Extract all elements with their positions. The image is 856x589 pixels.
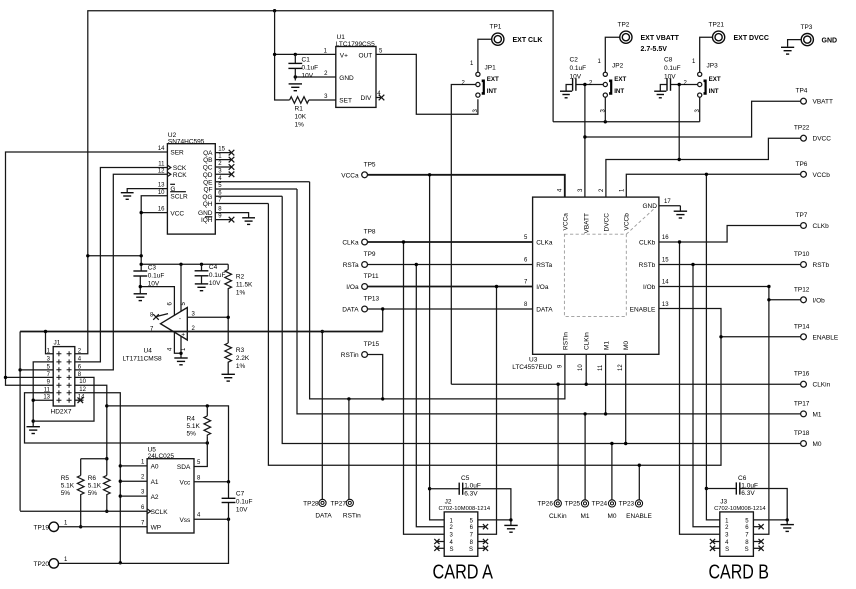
svg-text:SET: SET [339,98,352,105]
wire U2 QE stub [215,181,309,183]
svg-text:INT: INT [709,88,719,95]
svg-text:1%: 1% [236,289,246,296]
junction C1 top on V+ line [294,53,297,56]
wire JP1 pin2 to CLKin column [451,85,476,385]
svg-text:GND: GND [822,38,838,45]
svg-text:I/Ob: I/Ob [813,297,826,304]
wire U2 VCC rail and C3 [86,211,167,271]
svg-text:U1: U1 [337,34,346,41]
svg-text:J2: J2 [445,499,452,506]
svg-text:TP7: TP7 [796,212,808,219]
svg-text:C702-10M008-1214: C702-10M008-1214 [714,506,766,512]
svg-text:0.1uF: 0.1uF [302,65,319,72]
wire U2 QH stub [215,203,268,205]
svg-text:C702-10M008-1214: C702-10M008-1214 [439,506,491,512]
svg-text:DVCC: DVCC [603,213,610,232]
svg-text:10K: 10K [295,114,307,121]
svg-text:J3: J3 [720,499,727,506]
wire RSTb net: U3 pin15 to TP10, branch to J3 pin2 [659,263,801,527]
U3 top pin numbers [558,188,626,192]
svg-text:M0: M0 [607,513,616,520]
testpoint TP28 DATA [303,499,332,519]
U3 left pin labels [524,235,553,313]
junction VCC rail / U1 V+ branch [273,9,276,12]
svg-text:CLKin: CLKin [584,332,591,350]
svg-text:TP19: TP19 [34,524,50,531]
capacitor C6 1.0uF 6.3V [736,475,758,497]
wire CLKa net: TP8 to U3 pin5, branch to J2 pin3 [368,240,533,534]
wire C2 left plate to ground [566,85,573,91]
svg-text:11: 11 [44,387,51,393]
svg-text:LTC4557EUD: LTC4557EUD [512,364,552,371]
svg-text:16: 16 [158,207,165,213]
svg-text:SN74HC595: SN74HC595 [168,138,205,145]
wire CLKb net: U3 pin16 to TP7, branch to J3 pin3 [659,226,801,535]
ground below TP3 [781,47,794,54]
testpoint TP12 I/Ob [794,286,825,304]
svg-text:11: 11 [158,162,165,168]
J2 S-left no-connect X [434,546,444,551]
svg-text:TP17: TP17 [794,400,810,407]
svg-text:RSTb: RSTb [813,262,830,269]
SIM connector J3 C702-10M008-1214 [714,499,766,557]
svg-text:2.7-5.5V: 2.7-5.5V [641,46,668,53]
svg-text:+: + [181,332,185,339]
wire C5 net CARD A bypass [430,489,513,525]
svg-text:QA: QA [203,150,213,157]
svg-text:EXT VBATT: EXT VBATT [641,35,680,42]
svg-text:R3: R3 [236,347,245,354]
svg-text:I/Ob: I/Ob [643,284,656,291]
wire R5 R6 top rail [81,458,107,460]
U2 left pin numbers [158,146,165,213]
testpoint TP9 RSTa [343,251,376,269]
svg-text:10V: 10V [209,280,221,287]
svg-text:VCCb: VCCb [624,213,631,231]
ground at U2 Gbar pin [121,193,134,200]
J3 S-left no-connect X [710,546,720,551]
J1 right pin numbers [78,348,87,400]
svg-text:14: 14 [158,146,165,152]
svg-text:JP3: JP3 [707,63,719,70]
wire C8 left plate to ground [660,85,667,91]
svg-text:CLKa: CLKa [536,240,553,247]
svg-text:TP14: TP14 [794,323,810,330]
svg-text:GND: GND [198,210,213,217]
svg-text:10: 10 [578,364,584,371]
svg-text:13: 13 [158,183,165,189]
svg-text:EXT DVCC: EXT DVCC [734,35,769,42]
wire R4 column to U5 SDA [194,436,207,466]
svg-text:24LC025: 24LC025 [148,453,175,460]
ground below C2 [560,91,572,98]
svg-text:TP13: TP13 [364,296,380,303]
testpoint TP13 DATA [342,296,379,314]
testpoint TP23 ENABLE [619,500,653,520]
svg-text:R5: R5 [61,475,70,482]
wire TP2 to JP2 pin1 [605,37,620,72]
wire J1 pin1 to data line [44,330,53,354]
svg-text:16: 16 [662,235,669,241]
wire U1 OUT to JP1 pin3 loop [376,54,478,114]
wire J1 pin12 to U5 address pins and TP20 [75,393,122,565]
svg-text:RSTa: RSTa [343,262,359,269]
ground at U2 GND pin [242,218,255,225]
svg-text:RSTa: RSTa [536,262,552,269]
svg-text:CARD A: CARD A [433,562,494,584]
jumper JP1 EXT/INT [462,61,500,113]
svg-text:Vcc: Vcc [179,479,191,486]
svg-text:WP: WP [151,525,161,532]
svg-text:GND: GND [339,75,354,82]
wire DATA net: TP13 to U3 pin8, branch to U4 plus input [368,307,533,331]
svg-text:A0: A0 [151,464,159,471]
dual SIM power selector U3 LTC4557EUD [512,197,659,371]
wire JP2/JP3 INT select rail [553,120,700,123]
J1 pin cross marks [56,351,71,402]
svg-text:DATA: DATA [536,307,553,314]
svg-text:5.1K: 5.1K [88,482,102,489]
svg-text:10V: 10V [236,507,248,514]
svg-text:OUT: OUT [359,52,373,59]
wire U2 SCLR to VCC [141,196,167,213]
svg-text:RSTin: RSTin [563,332,570,350]
svg-text:QB: QB [203,157,212,164]
svg-text:C6: C6 [738,475,747,482]
jumper JP3 EXT/INT [684,59,721,113]
wire DVCC net: JP3 pin2, C8, U3 pin2, TP22 [606,83,801,197]
svg-text:EXT: EXT [614,76,626,83]
svg-text:ENABLE: ENABLE [813,334,839,341]
svg-text:2.2K: 2.2K [236,355,250,362]
svg-text:TP24: TP24 [592,500,608,507]
svg-text:DIV: DIV [361,95,373,102]
svg-text:6.3V: 6.3V [741,490,755,497]
jumper JP2 EXT/INT [589,59,626,113]
svg-text:10V: 10V [302,73,314,80]
wire VCCa net: TP5 to U3 pin4, branch to CARD A [368,173,565,520]
comparator U4 LT1711CMS8 [123,302,196,363]
svg-text:INT: INT [614,88,624,95]
svg-text:I/Oa: I/Oa [346,284,359,291]
svg-text:15: 15 [662,258,669,264]
junction V+ node [273,53,276,56]
svg-text:R4: R4 [187,415,196,422]
svg-text:C4: C4 [209,264,218,271]
wire J1 pin3 pin13 ground column [32,362,54,427]
wire U4 V+ stub from rail [180,264,182,311]
svg-text:0.1uF: 0.1uF [236,499,253,506]
U2 QC no-connect X [215,164,234,170]
wire U2 RCK to J1 pin6 [75,174,168,370]
wire I/Oa net: TP11 to U3 pin7, branch to J2 pin7 [368,285,533,534]
svg-text:U3: U3 [529,357,538,364]
ground below C6 [781,525,794,532]
wire C6 net CARD B bypass [706,489,789,525]
svg-text:15: 15 [218,147,225,153]
wire U2 QG stub [215,195,282,197]
svg-text:5.1K: 5.1K [61,482,75,489]
svg-text:R6: R6 [88,475,97,482]
svg-text:13: 13 [662,302,669,308]
svg-text:M1: M1 [580,513,589,520]
testpoint TP18 M0 [794,430,822,448]
wire J1 pin8 ground loop [33,377,94,421]
svg-text:QD: QD [203,172,213,179]
svg-text:DVCC: DVCC [813,136,832,143]
svg-text:HD2X7: HD2X7 [51,409,72,416]
J2 pin8 no-connect X [478,539,488,544]
wire TP28 DATA branch from U4 line [321,330,324,500]
svg-text:Vss: Vss [179,517,191,524]
svg-text:11.5K: 11.5K [236,281,253,288]
testpoint TP3 GND [801,24,838,46]
wire VCCb net: U3 pin1 to TP6, branch to CARD B [626,173,800,520]
svg-text:VBATT: VBATT [813,99,833,106]
resistor R5 5.1K 5% [61,475,84,497]
svg-text:5.1K: 5.1K [187,423,201,430]
testpoint TP21 EXT DVCC [709,22,769,44]
testpoint TP2 EXT VBATT [618,22,680,53]
testpoint TP7 CLKb [796,212,830,230]
wire TP15 RSTin branch [368,355,383,399]
svg-text:10V: 10V [664,74,676,81]
wire VCC top rail from J1 pin2 to U1 and JP2/JP3 INT rail [75,9,553,354]
svg-text:RSTin: RSTin [341,352,359,359]
svg-text:DATA: DATA [342,307,359,314]
svg-text:C2: C2 [570,57,579,64]
svg-text:VBATT: VBATT [584,213,591,233]
svg-text:TP28: TP28 [303,500,319,507]
J3 pin4 no-connect X [710,539,720,544]
svg-text:C5: C5 [461,475,470,482]
resistor R3 2.2K 1% [225,343,250,370]
svg-text:S: S [725,547,729,553]
U4 pin8 no-connect X [153,314,168,320]
wire R3 bottom to ground [227,368,229,375]
wire U4 ground stubs [174,333,182,358]
wire TP3 to ground [788,40,802,47]
svg-text:R2: R2 [236,273,245,280]
testpoint TP24 M0 [592,500,617,520]
testpoint TP16 CLKin [794,371,831,389]
wire U2 GND pin to ground [215,213,248,218]
svg-text:-: - [179,316,181,323]
svg-text:TP8: TP8 [364,229,376,236]
svg-text:TP27: TP27 [330,500,346,507]
wire SCLK line to U5 [20,510,147,512]
svg-text:SCLR: SCLR [170,194,188,201]
testpoint TP10 RSTb [794,251,830,269]
svg-text:QC: QC [203,165,213,172]
U5 pin numbers [141,459,201,526]
svg-text:TP20: TP20 [34,561,50,568]
svg-text:QH: QH [203,201,213,208]
svg-text:TP18: TP18 [794,430,810,437]
svg-text:10: 10 [79,379,86,385]
testpoint TP20 [34,557,69,568]
ground below C8 [654,91,666,98]
svg-text:TP12: TP12 [794,286,810,293]
svg-text:RCK: RCK [173,172,187,179]
ground below U4 [174,358,187,365]
wire JP3 pin3 stub [699,97,701,122]
U3 right pin labels [630,235,670,313]
wire U4 output to SCLK column / plus input line [18,332,382,511]
wire U1 GND pin to ground [294,75,336,78]
svg-text:TP9: TP9 [364,251,376,258]
wire RSTin net: U3 pin9 to U2 QE and TP27 [310,182,565,401]
svg-text:1.0uF: 1.0uF [741,482,758,489]
svg-text:R1: R1 [295,106,304,113]
svg-text:A1: A1 [151,479,159,486]
J1 left pin numbers [43,348,50,400]
svg-text:ENABLE: ENABLE [626,513,652,520]
wire I/Ob net: U3 pin14 to TP12 and J3 pin7 [659,285,801,534]
svg-text:CLKin: CLKin [813,382,831,389]
capacitor C2 0.1uF 10V [570,57,587,91]
svg-text:13: 13 [43,395,50,401]
wire TP19 to U5 WP [59,526,148,528]
wire TP27 RSTin branch [348,399,350,500]
testpoint TP11 I/Oa [346,273,379,291]
testpoint TP22 DVCC [794,125,831,143]
wire U2 SCK to J1 pin4 [75,168,168,362]
svg-text:QE: QE [203,179,213,186]
svg-text:VCC: VCC [170,210,184,217]
svg-text:11: 11 [598,364,604,371]
svg-text:0.1uF: 0.1uF [570,65,587,72]
svg-text:TP5: TP5 [364,161,376,168]
svg-text:TP3: TP3 [801,24,813,31]
svg-text:14: 14 [662,280,669,286]
svg-text:CLKb: CLKb [639,240,656,247]
wire R6 column to SCLK line [105,497,108,513]
J3 pin6 no-connect X [753,524,763,529]
wire R2 bottom to U4 minus input and R3 [187,295,230,344]
wire U2 QF stub [215,188,297,190]
U3 GND pin17 [643,199,681,211]
svg-text:J1: J1 [54,340,61,347]
svg-text:GND: GND [643,203,658,210]
wire RSTa net: TP9 to U3 pin6, branch to J2 pin2 [368,263,533,527]
svg-text:U4: U4 [144,348,153,355]
svg-text:0.1uF: 0.1uF [664,65,681,72]
shift register U2 SN74HC595 [167,132,215,234]
wire TP1 to JP1 pin1 [478,39,492,72]
svg-text:S: S [469,547,473,553]
capacitor C7 0.1uF 10V [222,491,253,514]
wire VBATT net: JP2 pin2, C2, U3 pin3, TP4 [576,83,801,197]
SIM connector J2 C702-10M008-1214 [439,499,491,557]
svg-text:M1: M1 [603,341,610,350]
J3 S-right no-connect X [753,546,763,551]
wire U5 A0 A1 A2 stubs [120,466,147,496]
svg-text:10V: 10V [148,281,160,288]
svg-text:TP21: TP21 [709,22,725,29]
svg-text:DATA: DATA [315,512,332,519]
svg-text:12: 12 [618,364,624,371]
ground below C1 [289,84,302,91]
svg-text:5%: 5% [187,430,197,437]
U3 bottom pin labels rotated [563,332,631,350]
ground below C4 [195,284,208,291]
svg-text:CLKa: CLKa [342,240,359,247]
ground below J1 [27,427,40,434]
resistor R2 11.5K 1% [225,270,253,297]
resistor R6 5.1K 5% [88,475,110,497]
junction SDA at R4 bottom [206,441,209,444]
svg-text:TP25: TP25 [565,500,581,507]
svg-text:C7: C7 [236,491,245,498]
wire U5 Vcc stub to C7 column [194,480,230,483]
svg-text:EXT CLK: EXT CLK [513,37,543,44]
svg-text:TP23: TP23 [619,500,635,507]
svg-text:5%: 5% [88,490,98,497]
svg-text:5%: 5% [61,490,71,497]
svg-text:RSTb: RSTb [639,262,656,269]
wire U1 SET to R1 [309,99,336,101]
svg-text:VCCa: VCCa [341,172,359,179]
svg-text:M0: M0 [623,341,630,350]
U2 right pin numbers [218,147,225,220]
svg-text:LTC1799CS5: LTC1799CS5 [336,41,375,48]
U2 IQH no-connect X [215,217,234,223]
svg-text:TP26: TP26 [537,500,553,507]
wire M0 net: U2 QG to bus, U3 pin12, TP24, TP18 [282,196,800,500]
U3 bottom pin numbers [558,364,624,371]
svg-text:SER: SER [170,150,184,157]
svg-text:CLKb: CLKb [813,223,830,230]
svg-text:SDA: SDA [177,464,191,471]
J1 pin14 no-connect X [75,397,84,403]
svg-text:M1: M1 [813,411,822,418]
svg-text:10: 10 [158,190,165,196]
U3 inner dashed region [564,207,656,317]
svg-text:VCCb: VCCb [813,172,831,179]
svg-text:INT: INT [487,88,497,95]
resistor R4 5.1K 5% [187,415,211,437]
svg-text:TP6: TP6 [796,161,808,168]
U2 QB no-connect X [215,157,234,163]
svg-text:RSTin: RSTin [343,512,361,519]
testpoint TP15 RSTin [341,341,380,359]
svg-text:S: S [450,547,454,553]
capacitor C1 0.1uF 10V [288,54,318,80]
U1 pin4 DIV no-connect X [376,95,384,101]
svg-text:TP16: TP16 [794,371,810,378]
svg-text:I/Oa: I/Oa [536,284,549,291]
testpoint TP27 RSTin [330,499,361,519]
wire C3 bottom to U4 V- stub [139,281,175,316]
U3 top pin labels rotated [563,213,631,234]
wire R5 column to TP19 WP line [79,459,82,529]
wire JP2 pin3 stub [604,97,606,122]
wire J1 pin11 to SDA line [25,393,208,443]
testpoint TP1 EXT CLK [490,24,543,46]
svg-text:1%: 1% [295,122,305,129]
U2 QD no-connect X [215,172,234,178]
svg-text:EXT: EXT [487,76,499,83]
testpoint TP6 VCCb [796,161,831,179]
svg-text:VCCa: VCCa [563,213,570,231]
svg-text:TP4: TP4 [796,88,808,95]
ground at U3 pin17 [674,211,687,218]
svg-text:JP2: JP2 [612,63,624,70]
svg-text:QF: QF [203,187,212,194]
wire R4 top rail [107,404,229,482]
eeprom U5 24LC025 [147,447,194,533]
